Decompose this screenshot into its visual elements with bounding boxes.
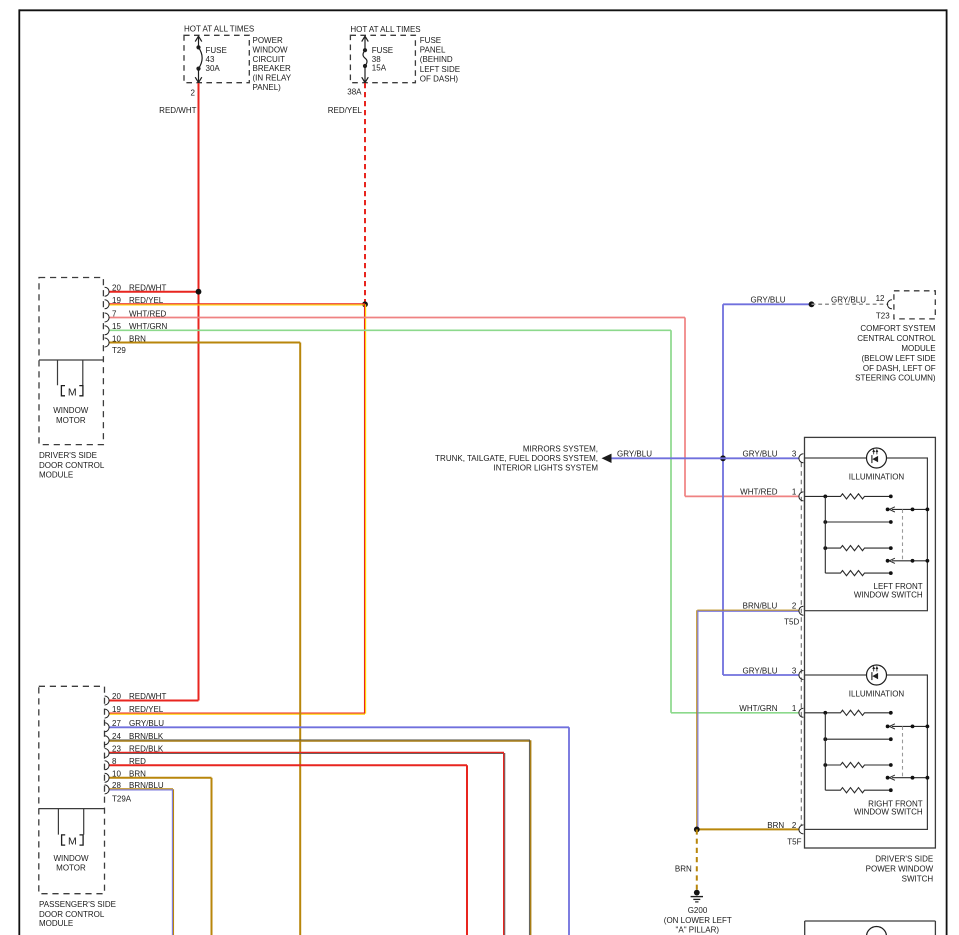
wire GRY/BLU main vertical [722,304,724,675]
svg-text:WHT/GRN: WHT/GRN [739,704,777,713]
page frame top [19,9,946,11]
svg-text:STEERING COLUMN): STEERING COLUMN) [855,374,936,383]
wire BRN from driver pin 10 [109,342,300,344]
svg-text:FUSE: FUSE [206,46,227,55]
svg-text:10: 10 [112,334,121,343]
svg-text:MIRRORS SYSTEM,: MIRRORS SYSTEM, [523,445,598,454]
svg-text:MODULE: MODULE [39,919,73,928]
wire WHT/GRN vertical [670,330,672,713]
circuit breaker S43 symbol [195,36,202,82]
svg-text:FUSE: FUSE [372,46,393,55]
svg-text:BRN: BRN [767,821,784,830]
svg-text:1: 1 [792,704,797,713]
right front switch contact row 3 [825,738,891,740]
svg-text:CENTRAL CONTROL: CENTRAL CONTROL [857,334,936,343]
svg-text:GRY/BLU: GRY/BLU [129,719,164,728]
node dots row 1 [823,711,827,715]
svg-text:OF DASH): OF DASH) [420,74,459,83]
svg-text:20: 20 [112,692,121,701]
svg-text:20: 20 [112,284,121,293]
svg-text:15A: 15A [372,64,387,73]
wire BRN dashed to ground [696,829,698,889]
svg-text:RED/BLK: RED/BLK [129,744,164,753]
comfort system module note [855,324,936,383]
wire BRN vertical to bottom [299,343,301,935]
wire RED/WHT to passenger module pin 20 [109,700,199,702]
svg-text:BRN: BRN [675,864,692,873]
wire BRN from passenger pin 10 [109,777,212,779]
svg-text:OF DASH, LEFT OF: OF DASH, LEFT OF [863,364,936,373]
svg-text:COMFORT SYSTEM: COMFORT SYSTEM [860,324,936,333]
svg-text:(IN RELAY: (IN RELAY [253,74,292,83]
ground G200 label [664,906,732,935]
svg-text:24: 24 [112,732,121,741]
svg-text:"A" PILLAR): "A" PILLAR) [676,926,720,935]
wire RED/YEL vertical to passenger pin 19 [365,304,366,713]
LED illumination lamp right front switch [867,665,887,685]
passenger window motor leads [58,809,83,835]
svg-text:T29: T29 [112,346,126,355]
wire BRN/BLU from passenger pin 28 [109,789,173,790]
node dots row 1 [823,495,827,499]
driver module pin 7 connector [105,313,110,322]
svg-text:1: 1 [792,488,797,497]
svg-text:BRN: BRN [129,769,146,778]
passenger module pin 8 connector [105,761,110,770]
svg-text:T29A: T29A [112,794,132,803]
driver module pin 20 connector [105,287,110,296]
wire BRN/BLU vertical to ground junction [697,610,698,829]
svg-text:BRN/BLU: BRN/BLU [743,602,778,611]
wire dashed to T23 pin 12 [812,303,889,305]
wire RED/BLK from passenger pin 23 [109,753,504,754]
wire WHT/RED from driver pin 7 [109,317,685,319]
wire WHT/GRN to right front switch pin 1 [671,712,800,714]
wire BRN/BLK vertical to bottom [529,740,530,935]
left front switch resistor row 6 [825,571,891,576]
LED illumination lamp left front switch [867,448,887,468]
svg-text:2: 2 [792,602,797,611]
left front switch name [854,582,923,599]
svg-text:19: 19 [112,705,121,714]
svg-text:(BELOW LEFT SIDE: (BELOW LEFT SIDE [862,354,936,363]
svg-text:PANEL): PANEL) [253,83,282,92]
svg-text:WHT/GRN: WHT/GRN [129,322,167,331]
svg-text:38A: 38A [347,88,362,97]
wire RED vertical to bottom [466,765,468,935]
node dots row 3 [823,737,827,741]
left front switch resistor row 1 [805,494,891,499]
wire RED/YEL dashed vertical from S38 [364,83,366,304]
wire WHT/RED to left front switch pin 1 [685,495,800,497]
svg-text:PASSENGER'S SIDE: PASSENGER'S SIDE [39,900,116,909]
svg-text:INTERIOR LIGHTS SYSTEM: INTERIOR LIGHTS SYSTEM [494,463,599,472]
driver module pin 19 connector [105,300,110,309]
ground G200 symbol [691,890,703,902]
wire BRN/BLU from left front switch pin 2 [697,610,799,611]
svg-text:RED: RED [129,757,146,766]
svg-text:28: 28 [112,781,121,790]
wire WHT/RED vertical [684,318,686,497]
svg-text:BREAKER: BREAKER [253,64,291,73]
passenger module name [39,900,116,928]
svg-text:7: 7 [112,309,117,318]
svg-text:HOT AT ALL TIMES: HOT AT ALL TIMES [350,25,420,34]
svg-text:43: 43 [206,55,215,64]
svg-text:LEFT SIDE: LEFT SIDE [420,65,460,74]
junction RED/WHT at pin 20 tap [196,289,202,295]
right front switch pin 2 connector [799,825,804,834]
svg-text:19: 19 [112,296,121,305]
wire RED/WHT to driver module pin 20 [109,291,199,293]
right front switch resistor row 4 [825,762,891,767]
left front switch pin 1 connector [799,492,804,501]
left front switch contact row 2 with wiper arrow [886,507,930,512]
node dots row 4 [823,763,827,767]
wire BRN/BLK from passenger pin 24 [109,740,530,741]
svg-text:DOOR CONTROL: DOOR CONTROL [39,461,105,470]
svg-text:RED/YEL: RED/YEL [129,296,164,305]
svg-text:SWITCH: SWITCH [902,875,934,884]
fuse S38 box [350,35,415,82]
svg-text:3: 3 [792,450,797,459]
switch connector dashed column [800,463,802,826]
rear switch box partial at bottom [805,921,936,935]
svg-text:G200: G200 [688,906,708,915]
wire GRY/BLU branch to left front switch pin 3 [610,457,800,459]
circuit breaker S43 box [184,35,249,82]
svg-text:T5F: T5F [787,838,801,847]
left front switch bus vertical [824,496,826,573]
svg-text:FUSE: FUSE [420,36,441,45]
wire RED from passenger pin 8 [109,764,467,766]
node dot row 6 [889,571,893,575]
driver power window switch outer box [805,437,936,848]
wire GRY/BLU from passenger pin 27 [109,726,569,728]
node dots row 3 [823,520,827,524]
svg-text:HOT AT ALL TIMES: HOT AT ALL TIMES [184,25,254,34]
svg-text:8: 8 [112,757,117,766]
svg-text:TRUNK, TAILGATE, FUEL DOORS SY: TRUNK, TAILGATE, FUEL DOORS SYSTEM, [435,454,598,463]
svg-text:WHT/RED: WHT/RED [129,309,167,318]
svg-text:GRY/BLU: GRY/BLU [751,296,786,305]
motor M2 passenger window motor symbol [62,835,84,845]
right front switch name [854,799,923,816]
driver module name [39,451,105,479]
svg-text:38: 38 [372,55,381,64]
passenger module pin 24 connector [105,736,110,745]
fuse S38 location note [420,36,460,83]
svg-text:2: 2 [191,88,196,97]
svg-text:2: 2 [792,821,797,830]
svg-text:GRY/BLU: GRY/BLU [617,449,652,458]
svg-text:T23: T23 [876,311,890,320]
right front switch resistor row 1 [805,710,891,715]
driver module pin 10 connector [105,338,110,347]
svg-text:BRN/BLK: BRN/BLK [129,732,164,741]
svg-text:30A: 30A [206,64,221,73]
driver window motor leads [58,360,83,385]
page frame right [946,9,948,935]
junction RED/YEL at pin 19 tap [362,301,368,307]
connector T23 box [894,291,935,319]
svg-text:12: 12 [876,294,885,303]
passenger module motor section separator [39,808,105,810]
connector T23 pin 12 arc [887,300,892,309]
passenger door control module box [39,686,105,893]
passenger module pin 20 connector [105,696,110,705]
wire GRY/BLU comfort module horizontal [723,303,812,305]
right front switch pin 3 connector [799,671,804,680]
svg-text:DRIVER'S SIDE: DRIVER'S SIDE [875,855,933,864]
svg-text:MOTOR: MOTOR [56,416,86,425]
right front switch bus vertical [824,713,826,790]
fuse S38 symbol [362,36,369,82]
svg-text:RED/YEL: RED/YEL [129,705,164,714]
svg-text:POWER: POWER [253,36,283,45]
svg-text:RED/WHT: RED/WHT [129,284,166,293]
passenger module pin 10 connector [105,773,110,782]
passenger module pin 27 connector [105,723,110,732]
right front switch pin 1 connector [799,708,804,717]
svg-text:10: 10 [112,769,121,778]
passenger module pin 23 connector [105,749,110,758]
wire RED/WHT vertical from S43 [198,83,200,701]
right front switch contact row 2 with wiper arrow [886,724,930,729]
wire WHT/GRN from driver pin 15 [109,329,671,331]
wire RED/BLK vertical to bottom [504,753,505,935]
svg-text:WINDOW: WINDOW [253,45,289,54]
svg-text:CIRCUIT: CIRCUIT [253,55,286,64]
svg-text:GRY/BLU: GRY/BLU [743,450,778,459]
svg-text:WINDOW SWITCH: WINDOW SWITCH [854,808,923,817]
svg-text:23: 23 [112,744,121,753]
svg-text:GRY/BLU: GRY/BLU [831,296,866,305]
right front switch contact row 5 with wiper arrow [886,775,930,780]
driver module pin 15 connector [105,326,110,335]
wire BRN pin 10 vertical to bottom [211,778,213,935]
wire BRN/BLU pin 28 vertical to bottom [172,789,173,935]
right front switch resistor row 6 [825,788,891,793]
right front switch linkage dashed [902,726,904,777]
svg-text:MODULE: MODULE [39,470,73,479]
passenger module pin 28 connector [105,785,110,794]
svg-text:WINDOW: WINDOW [53,406,89,415]
left front switch resistor row 4 [825,546,891,551]
arrow to mirrors system [602,454,612,463]
svg-text:PANEL: PANEL [420,46,446,55]
svg-text:WINDOW SWITCH: WINDOW SWITCH [854,591,923,600]
page frame left [18,9,20,935]
svg-text:BRN: BRN [129,334,146,343]
node dots row 4 [823,546,827,550]
svg-text:T5D: T5D [784,617,799,626]
svg-text:M: M [68,386,77,398]
driver door control module box [39,278,103,445]
svg-text:BRN/BLU: BRN/BLU [129,781,164,790]
passenger module pin 19 connector [105,709,110,718]
junction GRY/BLU splice [809,301,815,307]
wire RED/YEL to passenger module pin 19 [109,713,365,714]
left front switch pin 2 connector [799,606,804,615]
svg-text:(BEHIND: (BEHIND [420,55,453,64]
driver module motor section separator [39,359,103,361]
svg-text:DRIVER'S SIDE: DRIVER'S SIDE [39,451,97,460]
svg-text:27: 27 [112,719,121,728]
svg-text:ILLUMINATION: ILLUMINATION [849,473,905,482]
svg-text:RED/YEL: RED/YEL [328,106,363,115]
svg-text:DOOR CONTROL: DOOR CONTROL [39,910,105,919]
junction GRY/BLU at mirrors branch [720,455,726,461]
junction BRN at ground tap [694,827,700,833]
svg-text:MODULE: MODULE [901,344,935,353]
wire GRY/BLU to right front switch pin 3 [723,674,800,676]
left front switch contact row 3 [825,521,891,523]
svg-text:(ON LOWER LEFT: (ON LOWER LEFT [664,916,732,925]
svg-text:RED/WHT: RED/WHT [159,106,196,115]
svg-text:WINDOW: WINDOW [53,854,89,863]
svg-text:POWER WINDOW: POWER WINDOW [866,865,934,874]
node dot row 6 [889,788,893,792]
left front switch pin 3 connector [799,454,804,463]
left front switch contact row 5 with wiper arrow [886,558,930,563]
svg-text:ILLUMINATION: ILLUMINATION [849,690,905,699]
right front window switch inner box [805,675,928,829]
svg-text:15: 15 [112,322,121,331]
motor M1 driver window motor symbol [61,386,83,396]
wire BRN from right front switch pin 2 [697,828,800,830]
svg-text:M: M [68,836,77,848]
svg-text:MOTOR: MOTOR [56,863,86,872]
left front window switch inner box [805,458,928,611]
driver power window switch name [866,855,934,884]
svg-text:3: 3 [792,666,797,675]
circuit breaker S43 location note [253,36,292,92]
wire GRY/BLU pin 27 vertical to bottom [568,727,570,935]
svg-text:WHT/RED: WHT/RED [740,488,778,497]
svg-text:RED/WHT: RED/WHT [129,692,166,701]
wire RED/YEL to driver module pin 19 [109,304,365,305]
left front switch linkage dashed [902,509,904,560]
mirrors system note [435,445,598,473]
svg-text:GRY/BLU: GRY/BLU [743,666,778,675]
